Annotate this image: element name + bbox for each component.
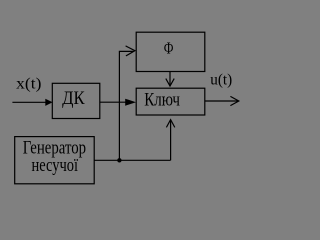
open arrowhead up into Kluch bottom [166,120,174,128]
block F (Ф filter) [136,32,205,71]
block carrier generator (Генератор несучої) [15,137,95,184]
wire: F down into Kluch with open arrowhead [166,72,174,86]
svg-text:несучої: несучої [32,155,79,176]
svg-text:ДК: ДК [62,88,85,109]
junction dot on generator wire [117,158,121,162]
wire: DK output to Kluch with filled arrowhead [100,99,136,106]
block DK (ДК) [52,83,100,118]
wire: Kluch output with open arrowhead [205,96,239,105]
svg-text:u(t): u(t) [210,72,232,89]
svg-text:Ключ: Ключ [144,90,180,111]
block Kluch (Ключ switch) [136,88,205,115]
wire: input arrow into DK [12,99,52,106]
wire: generator output to the right [94,159,170,161]
svg-text:x(t): x(t) [16,76,41,93]
svg-text:Ф: Ф [164,38,174,57]
open arrowhead into F left edge [126,46,135,56]
wire: turn up into Kluch bottom [170,121,172,161]
wire: vertical branch from generator line up to filter level [119,51,133,160]
